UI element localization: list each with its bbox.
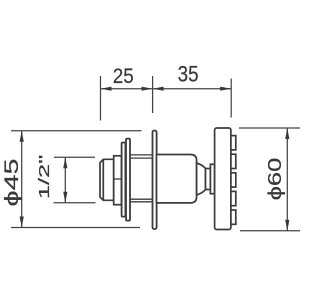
svg-text:25: 25 [113, 65, 134, 88]
svg-text:1/2": 1/2" [36, 155, 52, 199]
svg-text:35: 35 [178, 62, 199, 87]
svg-text:ϕ60: ϕ60 [264, 158, 285, 201]
svg-text:ϕ45: ϕ45 [1, 159, 22, 207]
